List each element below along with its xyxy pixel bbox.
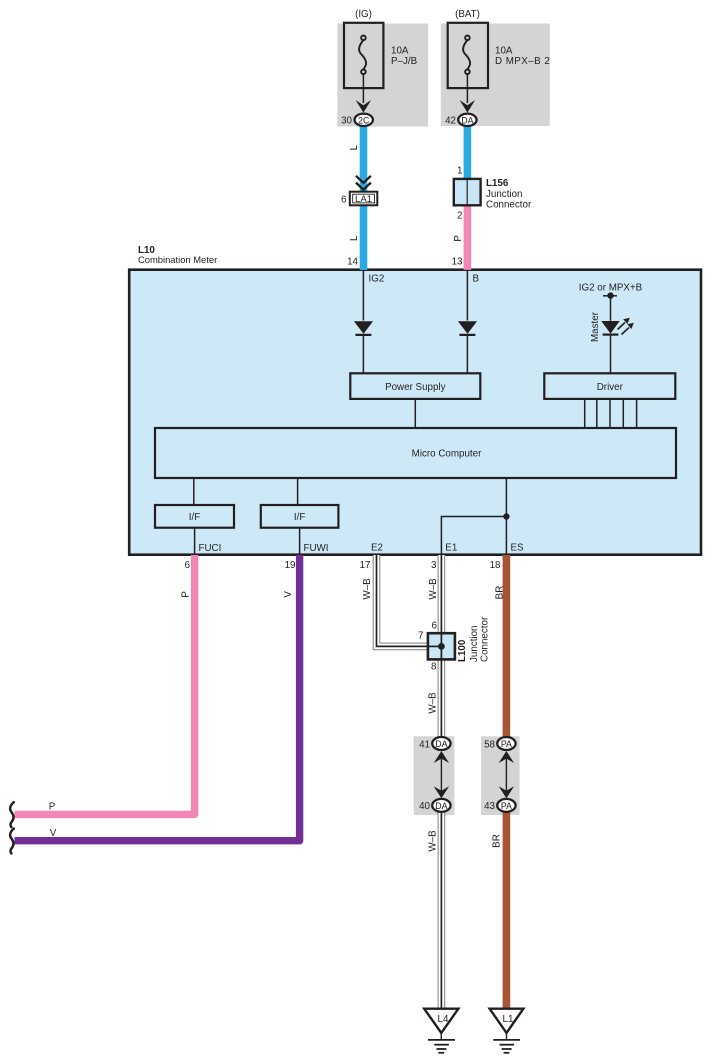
svg-text:D MPX–B 2: D MPX–B 2 xyxy=(495,56,550,67)
svg-text:IG2 or MPX+B: IG2 or MPX+B xyxy=(579,283,643,294)
wire power supply to micro computer xyxy=(414,399,416,428)
svg-text:L: L xyxy=(349,144,360,150)
svg-text:P: P xyxy=(453,235,464,242)
diode D1 xyxy=(354,321,373,334)
fuse IG element xyxy=(359,36,366,75)
wire BR (brown) from pin 18 ES to connector PA xyxy=(503,555,511,739)
terminal oval PA 58 xyxy=(497,737,515,750)
svg-text:PA: PA xyxy=(501,739,512,749)
fuse BAT lead line xyxy=(466,74,468,103)
svg-text:I/F: I/F xyxy=(294,512,305,523)
svg-text:3: 3 xyxy=(431,560,437,571)
internal wire from pin 13 to diode xyxy=(466,270,468,321)
svg-text:Driver: Driver xyxy=(597,382,624,393)
svg-text:B: B xyxy=(473,274,480,285)
svg-text:6: 6 xyxy=(341,195,347,206)
terminal oval 2C xyxy=(355,114,373,126)
svg-text:40: 40 xyxy=(419,801,430,812)
wire node to ES xyxy=(505,517,507,556)
power supply box xyxy=(350,373,480,399)
wire LED to driver xyxy=(610,335,612,374)
svg-text:7: 7 xyxy=(418,631,423,642)
fuse BAT black box xyxy=(448,23,488,88)
node dot E1/ES junction xyxy=(503,513,509,519)
wire micro computer to ES node xyxy=(505,478,507,517)
svg-text:L100: L100 xyxy=(457,639,468,662)
internal wire from pin 14 to diode xyxy=(362,270,364,321)
terminal oval DA 40 xyxy=(432,799,450,812)
chevron splice mark xyxy=(356,176,371,192)
svg-text:W–B: W–B xyxy=(362,578,373,600)
diode D2 xyxy=(458,321,477,334)
wire node to E1 xyxy=(441,517,506,556)
svg-text:LA1: LA1 xyxy=(355,194,372,205)
double arrow between PA ovals xyxy=(505,756,507,793)
svg-text:2C: 2C xyxy=(358,115,370,125)
svg-text:W–B: W–B xyxy=(427,692,438,714)
svg-text:43: 43 xyxy=(484,801,495,812)
svg-text:1: 1 xyxy=(457,166,462,177)
fuse IG lead line xyxy=(362,74,364,103)
svg-text:Junction: Junction xyxy=(469,626,480,663)
svg-text:Master: Master xyxy=(590,311,601,342)
driver box xyxy=(544,373,675,399)
wire I/F 1 to FUCI xyxy=(194,528,196,555)
wire P (pink) from pin 6 FUCI to left edge xyxy=(15,555,195,814)
wire P (pink) from L156 to pin 13 xyxy=(464,205,472,270)
wire W-B from pin 3 E1 through L100 to connector DA xyxy=(438,555,446,738)
driver bus lines xyxy=(585,399,637,428)
connector PA gray background box xyxy=(481,736,520,815)
svg-text:6: 6 xyxy=(432,621,438,632)
svg-text:P: P xyxy=(49,802,56,813)
svg-text:E2: E2 xyxy=(371,543,383,554)
svg-text:58: 58 xyxy=(484,739,495,750)
svg-text:PA: PA xyxy=(501,801,512,811)
svg-text:BR: BR xyxy=(494,586,505,600)
svg-text:14: 14 xyxy=(347,257,358,268)
svg-text:17: 17 xyxy=(360,560,371,571)
svg-text:FUWI: FUWI xyxy=(304,543,329,554)
wire micro computer to I/F 1 xyxy=(193,478,195,505)
wire L (blue) from LA1 to pin 14 xyxy=(360,204,368,271)
svg-text:DA: DA xyxy=(435,739,447,749)
svg-text:Junction: Junction xyxy=(486,189,523,200)
terminal oval DA 41 xyxy=(432,737,450,750)
svg-text:Power Supply: Power Supply xyxy=(385,382,446,393)
svg-text:Micro Computer: Micro Computer xyxy=(412,449,482,460)
LED indicator xyxy=(601,321,619,334)
svg-text:L1: L1 xyxy=(503,1014,514,1025)
svg-text:Connector: Connector xyxy=(480,616,491,662)
svg-text:W–B: W–B xyxy=(427,830,438,852)
wire W-B from pin 17 E2 to junction connector L100 xyxy=(377,555,429,646)
wire L (blue) from fuse BAT to L156 xyxy=(464,126,472,180)
arrow into oval DA xyxy=(460,100,476,113)
svg-text:(BAT): (BAT) xyxy=(455,9,480,20)
svg-text:W–B: W–B xyxy=(428,578,439,600)
wire W-B from connector DA to ground L4 xyxy=(438,811,446,1009)
svg-text:42: 42 xyxy=(445,116,456,127)
svg-text:L4: L4 xyxy=(438,1014,449,1025)
svg-text:(IG): (IG) xyxy=(355,9,372,20)
wire I/F 2 to FUWI xyxy=(299,528,301,555)
wire L (blue) from fuse IG to LA1 xyxy=(360,126,368,193)
svg-text:FUCI: FUCI xyxy=(199,543,222,554)
node dot in L100 xyxy=(438,643,445,650)
svg-text:Combination Meter: Combination Meter xyxy=(138,254,217,265)
I/F box 2 xyxy=(261,505,339,528)
continuation squiggle V xyxy=(10,829,14,854)
svg-text:L: L xyxy=(349,235,360,241)
fuse IG black box xyxy=(344,23,383,88)
double arrow between DA ovals xyxy=(440,756,442,793)
svg-text:IG2: IG2 xyxy=(369,274,385,285)
svg-text:DA: DA xyxy=(461,115,473,125)
svg-text:P–J/B: P–J/B xyxy=(391,56,418,67)
continuation squiggle P xyxy=(10,802,14,827)
terminal oval PA 43 xyxy=(497,799,515,812)
wire segments through L100 xyxy=(440,633,442,659)
internal wire from diode to power supply xyxy=(466,335,468,373)
svg-text:19: 19 xyxy=(285,560,296,571)
svg-text:E1: E1 xyxy=(445,543,457,554)
fuse IG gray background box xyxy=(337,24,428,127)
ground L4 xyxy=(424,1009,458,1033)
I/F box 1 xyxy=(155,505,234,528)
internal wire from diode to power supply xyxy=(362,335,364,373)
splice box LA1 xyxy=(350,192,378,206)
svg-text:DA: DA xyxy=(435,801,447,811)
svg-text:2: 2 xyxy=(457,211,462,222)
svg-text:V: V xyxy=(283,591,294,598)
svg-text:13: 13 xyxy=(452,257,463,268)
wire V (purple) from pin 19 FUWI to left edge xyxy=(15,555,300,841)
svg-text:41: 41 xyxy=(419,739,430,750)
wire BR (brown) from connector PA to ground L1 xyxy=(503,811,511,1009)
arrow into oval 2C xyxy=(356,100,372,113)
junction connector L156 box xyxy=(454,179,481,205)
fuse BAT element xyxy=(463,36,470,75)
combination meter block body xyxy=(129,270,701,555)
svg-text:P: P xyxy=(180,591,191,598)
svg-text:30: 30 xyxy=(341,116,352,127)
svg-text:18: 18 xyxy=(490,560,501,571)
micro computer box xyxy=(155,428,676,478)
terminal oval DA xyxy=(458,114,476,126)
fuse BAT gray background box xyxy=(441,24,550,127)
svg-text:ES: ES xyxy=(511,543,525,554)
node bar and dot xyxy=(603,295,617,297)
svg-text:6: 6 xyxy=(185,560,191,571)
svg-text:8: 8 xyxy=(431,662,437,673)
svg-text:Connector: Connector xyxy=(486,200,532,211)
ground L1 xyxy=(490,1009,524,1033)
svg-text:V: V xyxy=(50,828,57,839)
wire node to LED xyxy=(610,296,612,321)
svg-text:L156: L156 xyxy=(486,178,509,189)
junction connector L100 box xyxy=(428,633,455,659)
connector DA gray background box xyxy=(414,736,455,815)
wire micro computer to I/F 2 xyxy=(297,478,299,505)
svg-text:I/F: I/F xyxy=(189,512,200,523)
svg-text:BR: BR xyxy=(492,834,503,848)
